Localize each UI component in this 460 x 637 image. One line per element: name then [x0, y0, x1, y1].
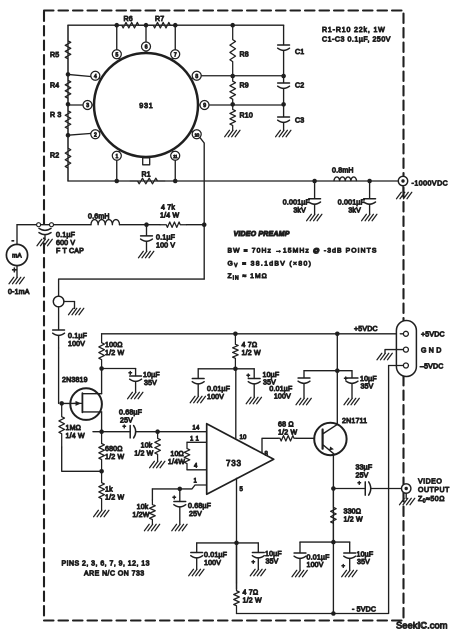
meter mA [6, 244, 27, 265]
label minus [12, 236, 15, 245]
wire bypass left arm [304, 370, 337, 372]
svg-text:5: 5 [116, 52, 119, 58]
ground below right 3kV cap [362, 214, 377, 221]
svg-text:C1: C1 [295, 49, 304, 56]
wire pin2 lead [68, 133, 93, 135]
svg-text:0.1µF: 0.1µF [68, 333, 87, 340]
svg-text:68 Ω: 68 Ω [278, 422, 294, 429]
tube pin 1 [112, 150, 121, 160]
svg-text:25V: 25V [120, 418, 133, 425]
ground below 0.68uF pin1 [172, 524, 187, 531]
wire pin3 lead [68, 104, 85, 106]
watermark SeekIC.com [396, 621, 448, 631]
svg-text:R7: R7 [155, 16, 164, 23]
spec Zin [228, 273, 268, 282]
svg-text:0.01µF: 0.01µF [204, 552, 227, 559]
title VIDEO PREAMP [234, 231, 290, 238]
svg-text:8: 8 [265, 452, 269, 458]
svg-text:1/4W: 1/4W [168, 459, 185, 466]
label -5VDC pin [420, 364, 444, 371]
svg-text:33µF: 33µF [356, 465, 373, 472]
svg-text:OUTPUT: OUTPUT [418, 487, 450, 494]
junction dot 47 ohm top [233, 332, 238, 337]
junction dots left chain [66, 72, 71, 137]
svg-text:1/2 W: 1/2 W [134, 451, 153, 458]
wire pin4 lead [68, 74, 93, 76]
svg-text:+: + [344, 377, 348, 383]
junction dot pin1 node [178, 487, 183, 492]
ground below 10uF FET [128, 392, 143, 399]
svg-text:10µF: 10µF [265, 551, 282, 558]
svg-text:1/2 W: 1/2 W [105, 495, 124, 502]
wire meter row [17, 224, 91, 226]
wire pin6 riser [145, 25, 147, 43]
svg-text:C1-C3 0.1µF, 250V: C1-C3 0.1µF, 250V [322, 37, 391, 44]
junction dot -5V rail [331, 611, 336, 616]
capacitor 0.01uF 100V neg-left [191, 543, 227, 569]
ground below 10uF neg [250, 569, 265, 576]
svg-text:+: + [342, 564, 346, 570]
wire +5V rail [102, 333, 401, 335]
svg-text:0.1µF: 0.1µF [156, 235, 175, 242]
feedthrough capacitor 0.1uF 600V [37, 223, 54, 246]
svg-text:R10: R10 [240, 113, 253, 120]
svg-text:1/2 W: 1/2 W [344, 517, 363, 524]
svg-text:1/2 W: 1/2 W [105, 454, 124, 461]
svg-text:+: + [358, 481, 362, 487]
label OUTPUT [418, 487, 450, 494]
ground at connector GND [377, 353, 392, 360]
capacitor 10uF 35V at 733 [247, 369, 280, 397]
svg-text:Z0≈50Ω: Z0≈50Ω [418, 496, 445, 505]
pin label 11 [190, 437, 199, 443]
label GND pin [421, 348, 441, 355]
svg-text:100V: 100V [68, 341, 85, 348]
capacitor C3 [278, 104, 305, 130]
capacitor 0.01uF 100V at 733 [192, 369, 230, 401]
svg-text:R6: R6 [124, 16, 133, 23]
svg-text:733: 733 [226, 459, 242, 468]
svg-text:C2: C2 [295, 83, 304, 90]
pin label 8 [265, 452, 269, 458]
wire 68 ohm to base [296, 437, 315, 439]
wire drain riser [101, 369, 103, 394]
tube pin 8 [191, 71, 201, 80]
resistor R10 [230, 104, 253, 130]
wire pin7 riser [174, 25, 176, 51]
junction dot 0.68 node [155, 429, 160, 434]
svg-text:R1-R10 22k, 1W: R1-R10 22k, 1W [322, 27, 386, 34]
svg-text:4 7Ω: 4 7Ω [243, 590, 259, 597]
wire 0.6mH to 4.7k [120, 224, 161, 226]
resistor 10k 1/2W upper [134, 432, 160, 461]
capacitor 0.01uF 100V out-left [294, 542, 330, 570]
note R1-R10 value [322, 27, 386, 34]
wire to pin14 [158, 431, 207, 433]
svg-text:10k: 10k [137, 504, 149, 511]
svg-text:+: + [247, 374, 251, 380]
svg-text:10µF: 10µF [360, 376, 377, 383]
ground below 0.01uF Q2 [296, 398, 311, 405]
svg-text:+: + [123, 425, 127, 431]
resistor 68 ohm 1/2W [278, 422, 297, 442]
junction dot pin10 node [233, 367, 238, 372]
label Zo 50 [418, 496, 445, 505]
svg-text:5: 5 [240, 487, 244, 493]
wire pin10 node right arm [235, 368, 254, 370]
junction dot emitter node [331, 486, 336, 491]
svg-text:3kV: 3kV [348, 208, 361, 215]
wire meter riser [16, 225, 18, 245]
svg-text:+: + [173, 496, 177, 502]
transistor Q1 2N3819 [70, 388, 102, 420]
capacitor 0.001uF 3kV left [283, 181, 321, 215]
wire source node left [93, 431, 102, 433]
svg-text:8: 8 [195, 74, 198, 80]
svg-text:G N D: G N D [421, 348, 441, 355]
svg-text:0.001µF: 0.001µF [283, 200, 310, 207]
svg-text:+: + [129, 371, 133, 377]
wire 1M to divider junction [62, 447, 102, 471]
wire source drop [101, 412, 103, 432]
resistor R4 [50, 74, 71, 104]
label -5VDC rail [352, 607, 376, 614]
svg-text:100V: 100V [307, 562, 324, 569]
svg-text:BW = 70Hz →15MHz @ -3dB PO: BW = 70Hz →15MHz @ -3dB POINTS [228, 248, 378, 255]
svg-text:0-1mA: 0-1mA [8, 289, 30, 296]
label 600V FT [56, 240, 75, 247]
ground below 1k [94, 510, 109, 517]
ground below 0.01uF 733 [190, 396, 205, 403]
svg-text:SeekIC.com: SeekIC.com [396, 621, 448, 631]
svg-text:100Ω: 100Ω [105, 342, 123, 349]
resistor 680 ohm 1/2W [99, 432, 125, 472]
wire pin5 drop [236, 478, 238, 589]
svg-text:4 7Ω: 4 7Ω [242, 342, 258, 349]
resistor R8 [230, 25, 249, 76]
shield enclosure dashed border [44, 11, 404, 621]
wire left divider chain [67, 25, 69, 181]
svg-text:1/4 W: 1/4 W [160, 213, 179, 220]
svg-text:F T CAP: F T CAP [56, 248, 84, 255]
transistor Q2 2N1711 [314, 423, 346, 455]
ground below R10 [225, 130, 240, 137]
pin label 4 [194, 464, 198, 470]
wire pin1 lead [116, 159, 118, 181]
capacitor 0.1uF 100V coupling [53, 307, 87, 348]
svg-text:100V: 100V [274, 394, 291, 401]
spec Gv [228, 261, 313, 270]
junction dot source node [99, 429, 104, 434]
tube pin 5 [112, 50, 121, 60]
wire pin10 node left arm [198, 368, 235, 370]
capacitor 33uF 25V output [333, 465, 401, 496]
svg-text:VIDEO: VIDEO [418, 479, 442, 486]
svg-text:1/4 W: 1/4 W [66, 433, 85, 440]
svg-text:3kV: 3kV [293, 208, 306, 215]
resistor 47 ohm 1/2W lower [234, 583, 262, 614]
tube pin 7 [171, 50, 180, 60]
svg-text:1MΩ: 1MΩ [66, 425, 82, 432]
junction dots pin8/pin9 rows [230, 74, 286, 107]
wire emitter drop [332, 454, 334, 614]
wire pin1 node to 10k [151, 489, 153, 500]
svg-text:10: 10 [194, 132, 199, 137]
wire pin5 node right arm [237, 542, 259, 544]
svg-text:0.68µF: 0.68µF [188, 503, 211, 510]
note C1-C3 value [322, 37, 391, 44]
svg-text:35V: 35V [144, 380, 157, 387]
svg-text:1 1: 1 1 [190, 437, 199, 443]
label 2N1711 [342, 418, 367, 425]
input connector jack [53, 296, 84, 315]
svg-text:1k: 1k [105, 487, 113, 494]
svg-text:R9: R9 [240, 83, 249, 90]
svg-text:100V: 100V [207, 394, 224, 401]
pin label 1 [193, 479, 197, 485]
ground at -1000VDC terminal [397, 186, 412, 199]
pin label 10 [240, 435, 248, 441]
label +5VDC rail [354, 326, 378, 333]
pin label 14 [192, 426, 200, 432]
tube pin 11 [171, 150, 180, 160]
junction dots top bus [114, 23, 235, 28]
svg-text:35V: 35V [361, 384, 374, 391]
wire pin8 lead [200, 75, 284, 77]
capacitor 0.68uF 25V input [102, 410, 158, 438]
resistor R6 [115, 16, 147, 28]
svg-text:2N1711: 2N1711 [342, 418, 367, 425]
resistor 1k 1/2W [99, 471, 125, 510]
svg-text:1: 1 [116, 154, 119, 160]
wire collector riser [336, 371, 338, 425]
svg-text:R4: R4 [50, 83, 59, 90]
capacitor 0.68uF 25V pin1 [173, 489, 212, 524]
svg-text:- 5VDC: - 5VDC [352, 607, 376, 614]
svg-text:0.01µF: 0.01µF [207, 386, 230, 393]
resistor 100 ohm 1/2W [99, 334, 125, 369]
junction dot collector rail [335, 332, 340, 337]
ground below upper 10k [150, 461, 165, 468]
svg-text:R2: R2 [50, 153, 59, 160]
svg-text:R1: R1 [142, 172, 151, 179]
svg-text:14: 14 [192, 426, 200, 432]
svg-text:0.68µF: 0.68µF [119, 410, 142, 417]
capacitor 10uF 35V out-right [342, 542, 374, 570]
svg-text:+5VDC: +5VDC [421, 332, 445, 339]
tube pin 4 [91, 71, 101, 80]
ground below 10uF 733 [246, 397, 261, 404]
junction dot 330 bottom [331, 540, 336, 545]
svg-text:3: 3 [86, 103, 89, 109]
resistor R2 [50, 135, 71, 181]
connector pin GND [385, 347, 408, 353]
junction dot gate node [59, 401, 64, 406]
resistor R1 [130, 172, 165, 184]
wire pin5 node left arm [197, 542, 237, 544]
pin label 5 [240, 487, 244, 493]
svg-text:6: 6 [145, 45, 148, 51]
ground below 10uF Q2 [344, 398, 359, 405]
label -1000VDC [412, 181, 449, 188]
svg-text:1/2 W: 1/2 W [242, 350, 261, 357]
label 2N3819 [62, 377, 88, 384]
wire preamp input [59, 279, 205, 296]
wire pin1 lead [152, 485, 206, 489]
junction dots bottom bus [114, 179, 177, 184]
capacitor 10uF 35V at Q2 [344, 371, 377, 398]
capacitor C1 [278, 25, 305, 76]
capacitor 0.1uF 100V mid [141, 225, 176, 251]
svg-text:680Ω: 680Ω [105, 446, 123, 453]
wire 330 node left arm [300, 541, 333, 543]
resistor 4.7k 1/4W [160, 205, 204, 228]
wire top dynode bus [68, 24, 284, 26]
junction dots HV row [312, 179, 372, 184]
svg-text:10Ω: 10Ω [170, 451, 184, 458]
svg-text:mA: mA [12, 253, 22, 260]
svg-text:-: - [12, 236, 15, 245]
wire pin10 drop [235, 369, 237, 439]
capacitor C2 [278, 76, 305, 104]
connector pin -5VDC [389, 363, 409, 368]
svg-text:25V: 25V [356, 473, 369, 480]
svg-text:10µF: 10µF [357, 552, 374, 559]
wire pin8 stub [262, 438, 278, 453]
ground below 0.01uF neg [189, 569, 204, 576]
spec BW [228, 248, 378, 255]
svg-text:35V: 35V [357, 559, 370, 566]
svg-text:VIDEO PREAMP: VIDEO PREAMP [234, 231, 290, 238]
resistor R9 [230, 76, 249, 104]
svg-text:2N3819: 2N3819 [62, 377, 88, 384]
svg-text:9: 9 [203, 103, 206, 109]
svg-text:1/2 W: 1/2 W [105, 350, 124, 357]
ground at output terminal [400, 493, 415, 505]
ground below left 3kV cap [307, 214, 322, 221]
ground below C3 [276, 130, 291, 137]
svg-text:10µF: 10µF [263, 372, 280, 379]
ground below meter [9, 277, 24, 284]
wire pin10 to preamp node [199, 136, 204, 279]
svg-text:4: 4 [94, 74, 97, 80]
svg-text:4: 4 [194, 464, 198, 470]
svg-text:11: 11 [173, 154, 178, 159]
svg-text:R8: R8 [240, 52, 249, 59]
wire 330 node right arm [333, 541, 349, 543]
wire pin11 lead [174, 159, 176, 181]
junction dot drain node [99, 366, 104, 371]
svg-text:0.001µF: 0.001µF [338, 200, 365, 207]
svg-text:35V: 35V [266, 559, 279, 566]
wire -5V rail [237, 366, 389, 614]
svg-text:330Ω: 330Ω [344, 509, 362, 516]
svg-text:+5VDC: +5VDC [354, 326, 378, 333]
wire pin11 stub [187, 441, 207, 443]
resistor 47 ohm 1/2W upper [233, 334, 261, 369]
wire drain node to 10uF [102, 368, 136, 370]
svg-text:C3: C3 [295, 118, 304, 125]
tube pin 3 [83, 101, 94, 110]
svg-text:931: 931 [139, 101, 153, 110]
svg-text:0.01µF: 0.01µF [269, 386, 292, 393]
label VIDEO [418, 479, 442, 486]
svg-text:1/2 W: 1/2 W [243, 598, 262, 605]
svg-text:+: + [12, 266, 17, 275]
svg-text:2: 2 [94, 132, 97, 138]
ground below 0.1uF mid [139, 251, 154, 257]
tube pin 9 [198, 101, 209, 110]
label +5VDC pin [421, 332, 445, 339]
note pins NC line2 [84, 571, 145, 578]
svg-text:100V: 100V [204, 560, 221, 567]
tube pin 6 [142, 42, 151, 53]
svg-text:7: 7 [174, 52, 177, 58]
label 0.1uF FT [56, 232, 75, 239]
wire collector from rail [336, 334, 338, 371]
label FT CAP [56, 248, 84, 255]
svg-text:ARE N/C ON 733: ARE N/C ON 733 [84, 571, 145, 578]
svg-text:0.8mH: 0.8mH [332, 168, 354, 175]
tube pin 2 [91, 130, 101, 139]
wire pin9 lead [208, 104, 284, 106]
photomultiplier tube 931 [94, 53, 198, 157]
capacitor 10uF 35V neg-right [252, 543, 282, 569]
svg-text:25V: 25V [189, 511, 202, 518]
resistor 330 ohm 1/2W [331, 489, 363, 543]
label plus [12, 266, 17, 275]
wire meter to ground [16, 266, 18, 278]
ground below lower 10k [144, 524, 159, 531]
capacitor 0.01uF 100V at Q2 [269, 371, 310, 401]
svg-text:R5: R5 [50, 52, 59, 59]
wire pin5 riser [116, 25, 118, 51]
svg-text:1: 1 [193, 479, 197, 485]
svg-text:ZIN ≈ 1MΩ: ZIN ≈ 1MΩ [228, 273, 268, 282]
wire bypass right arm [337, 370, 352, 372]
svg-text:10µF: 10µF [143, 372, 160, 379]
junction dot 680/1k [99, 469, 104, 474]
svg-text:1/2 W: 1/2 W [278, 430, 297, 437]
junction dot pin5 node [234, 541, 239, 546]
note pins NC line1 [62, 561, 150, 568]
svg-text:-1000VDC: -1000VDC [412, 181, 449, 188]
wire coupling cap to gate node [59, 348, 62, 403]
svg-text:0.01µF: 0.01µF [307, 555, 330, 562]
tube pin 10 [191, 130, 201, 139]
svg-text:0.1µF: 0.1µF [56, 232, 75, 239]
resistor R3 [50, 104, 71, 135]
ground below 10uF out [342, 570, 357, 577]
wire bottom bus [68, 180, 403, 182]
svg-text:4 7k: 4 7k [161, 205, 175, 212]
svg-text:1/2W: 1/2W [132, 512, 149, 519]
svg-text:GV = 38.1dBV (×80): GV = 38.1dBV (×80) [228, 261, 313, 270]
capacitor 0.001uF 3kV right [338, 181, 376, 215]
svg-text:600 V: 600 V [56, 240, 75, 247]
resistor 1M 1/4W [59, 403, 85, 447]
svg-text:10k: 10k [141, 443, 153, 450]
wire gate lead [62, 402, 76, 404]
svg-text:100 V: 100 V [156, 243, 175, 250]
resistor 10 ohm 1/4W [168, 442, 190, 470]
capacitor 10uF 35V at FET [129, 369, 160, 393]
junction dots meter row [144, 222, 206, 227]
svg-text:10: 10 [240, 435, 248, 441]
ground below 0.01uF out [292, 570, 307, 577]
svg-text:0.6mH: 0.6mH [88, 214, 110, 221]
svg-text:+: + [252, 560, 256, 566]
